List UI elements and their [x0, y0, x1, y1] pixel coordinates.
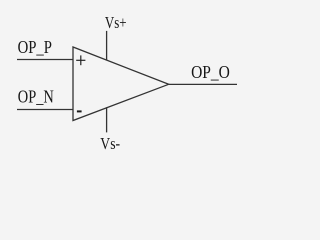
wire OP_N input — [17, 109, 73, 111]
wire OP_O output — [169, 83, 237, 85]
wire OP_P input — [17, 59, 73, 61]
svg-text:Vs-: Vs- — [100, 134, 120, 153]
svg-text:OP_P: OP_P — [18, 37, 52, 57]
svg-text:OP_O: OP_O — [191, 62, 230, 82]
op-amp non-inverting + pin marker — [76, 55, 85, 65]
op-amp inverting - pin marker — [77, 110, 82, 112]
wire Vs- supply — [106, 107, 108, 132]
svg-text:Vs+: Vs+ — [105, 13, 127, 32]
wire Vs+ supply — [106, 31, 108, 61]
svg-text:OP_N: OP_N — [18, 87, 54, 107]
op-amp U1 triangle body — [73, 47, 169, 121]
